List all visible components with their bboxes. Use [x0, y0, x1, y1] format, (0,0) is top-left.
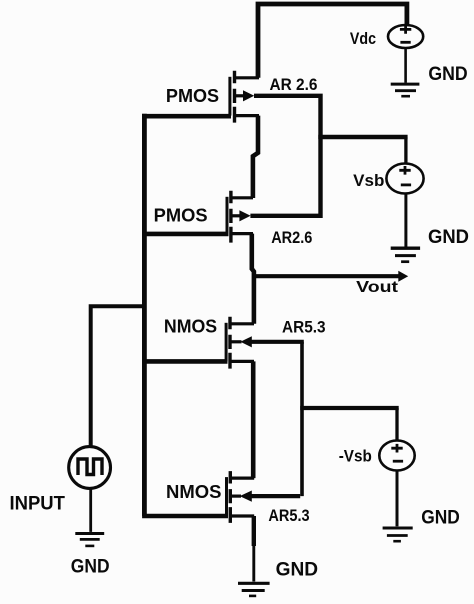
wire: branch to Vsb — [318, 135, 407, 139]
svg-text:AR5.3: AR5.3 — [282, 319, 326, 337]
svg-text:GND: GND — [276, 559, 319, 581]
transistor NMOS M4 — [227, 471, 255, 523]
wire: branch to -Vsb — [300, 406, 399, 410]
wire: -Vsb net NMOS bulks — [251, 340, 304, 344]
svg-text:AR2.6: AR2.6 — [271, 229, 312, 247]
ground symbol (Vsb) — [391, 194, 420, 262]
svg-text:GND: GND — [428, 226, 469, 248]
voltage source Vsb — [386, 164, 423, 194]
wire: gate bus vertical (input bus) — [142, 114, 147, 516]
ground symbol (INPUT) — [75, 489, 104, 546]
ground symbol (Vdc) — [391, 48, 420, 96]
pulse source INPUT — [69, 447, 111, 489]
svg-text:PMOS: PMOS — [154, 205, 208, 226]
wire: M2 gate to bus — [142, 232, 228, 237]
voltage source -Vsb — [379, 441, 414, 471]
svg-text:NMOS: NMOS — [166, 481, 221, 502]
svg-text:GND: GND — [421, 506, 460, 528]
svg-text:GND: GND — [428, 63, 467, 85]
transistor PMOS M2 — [227, 191, 253, 243]
wire: VDD top rail from M1 drain to Vdc — [258, 4, 407, 78]
wire: M3 gate to bus — [142, 359, 227, 364]
svg-text:Vsb: Vsb — [353, 171, 384, 190]
transistor PMOS M1 — [230, 71, 259, 123]
wire: M1 gate to bus — [142, 114, 231, 119]
wire: M2 source to Vout node to M3 drain — [252, 234, 254, 324]
ground symbol (M4 source) — [238, 583, 270, 596]
svg-text:NMOS: NMOS — [164, 315, 217, 336]
wire: M4 gate to bus — [142, 514, 228, 519]
svg-text:AR5.3: AR5.3 — [268, 507, 309, 525]
ground symbol (-Vsb) — [383, 471, 413, 542]
svg-text:PMOS: PMOS — [166, 85, 219, 106]
transistor NMOS M3 — [226, 317, 254, 369]
wire: Vout — [252, 274, 399, 278]
wire: M1 source to M2 drain — [253, 116, 258, 198]
wire: M4 source down to ground — [252, 516, 256, 546]
svg-text:GND: GND — [71, 556, 110, 578]
svg-text:-Vsb: -Vsb — [339, 448, 372, 466]
wire: AR2.6 net PMOS bulks — [250, 96, 320, 216]
svg-text:INPUT: INPUT — [10, 493, 66, 514]
voltage source Vdc — [388, 25, 423, 48]
svg-text:Vout: Vout — [356, 279, 399, 296]
svg-text:AR 2.6: AR 2.6 — [270, 76, 318, 94]
wire: INPUT source to gate bus — [91, 306, 144, 446]
output arrowhead Vout — [398, 271, 408, 282]
svg-text:Vdc: Vdc — [350, 29, 376, 48]
wire: M3 source to M4 drain — [251, 361, 256, 478]
